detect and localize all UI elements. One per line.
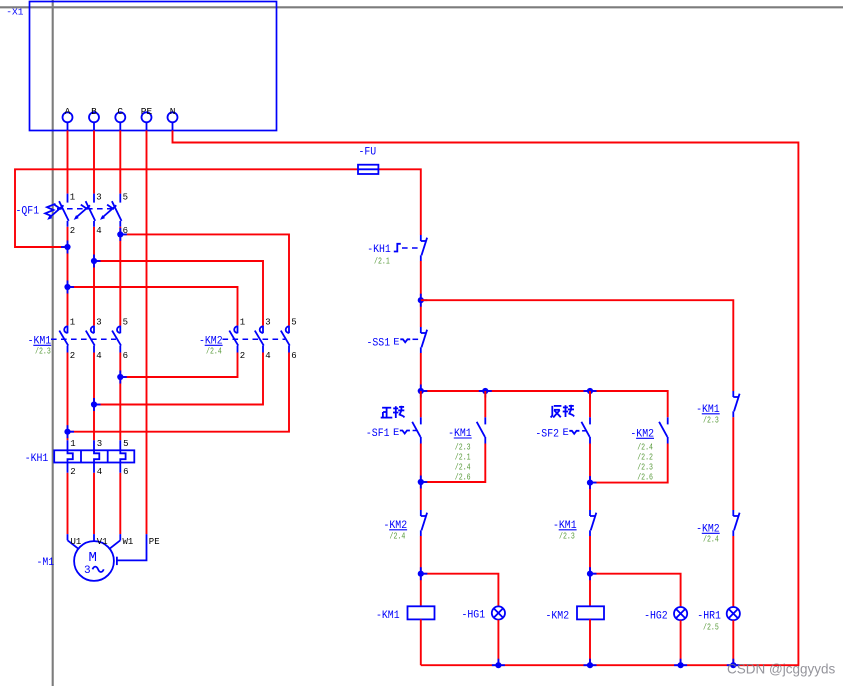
svg-text:5: 5	[291, 318, 296, 328]
svg-text:/2.4: /2.4	[206, 347, 222, 357]
svg-text:M: M	[89, 550, 97, 566]
node SF2/KM2aux join	[587, 476, 597, 489]
node control branch HR1	[418, 294, 428, 307]
node phase A to KM2	[64, 281, 74, 294]
wire KM2 coil to bottom rail	[589, 619, 591, 665]
wire HG1 to bottom rail	[497, 620, 499, 665]
motor PE connection	[117, 534, 147, 565]
wire SF1 bottom to junction	[420, 444, 422, 511]
svg-text:3: 3	[265, 318, 270, 328]
svg-text:-HR1: -HR1	[697, 611, 721, 623]
svg-text:/2.2: /2.2	[637, 452, 653, 462]
svg-text:3: 3	[96, 318, 101, 328]
contact KM2 NC branch1	[384, 510, 428, 542]
wire KH1 out to motor U1	[67, 473, 69, 534]
contactor KM1 pole 3	[112, 318, 128, 361]
wire PE from X1 to motor	[146, 131, 148, 535]
svg-text:A: A	[65, 106, 71, 117]
wire SF2 top feed	[589, 391, 591, 417]
motor M1	[37, 534, 160, 581]
wire KM2 aux bottom to junction	[590, 444, 668, 483]
wire KM2 pole1 out to phase C	[120, 353, 237, 378]
svg-text:V1: V1	[97, 537, 108, 547]
svg-text:/2.3: /2.3	[559, 532, 575, 542]
wire N from X1 right and down to bottom rail	[173, 131, 799, 666]
contactor KM1 pole 2	[86, 318, 102, 361]
svg-text:B: B	[91, 106, 97, 117]
svg-text:N: N	[170, 106, 176, 117]
svg-text:/2.1: /2.1	[374, 257, 390, 267]
wire branch3 to HR1	[732, 536, 734, 607]
node coil1/HG1	[418, 567, 428, 580]
svg-text:-KH1: -KH1	[25, 453, 49, 465]
svg-text:-HG1: -HG1	[462, 610, 486, 622]
node rail HG1	[492, 659, 505, 669]
contactor KM2 pole 1	[229, 318, 245, 361]
svg-text:/2.4: /2.4	[390, 532, 406, 542]
svg-text:CSDN @jcggyyds: CSDN @jcggyyds	[727, 662, 835, 677]
svg-text:5: 5	[123, 192, 128, 202]
wire KM1 out C down to KH1	[119, 353, 121, 441]
label reverse 反转	[551, 405, 575, 418]
wire SF1 top pin feed	[420, 391, 422, 417]
contactor KM2 pole 3	[281, 318, 297, 361]
svg-text:2: 2	[240, 351, 245, 361]
switch SS1 NC	[367, 327, 428, 353]
svg-text:6: 6	[123, 467, 128, 477]
svg-text:/2.4: /2.4	[637, 442, 653, 452]
node phase B KM2 join	[91, 398, 101, 411]
svg-text:5: 5	[123, 439, 128, 449]
pushbutton SF2 NO	[535, 417, 590, 443]
svg-text:1: 1	[70, 318, 75, 328]
svg-text:1: 1	[240, 318, 245, 328]
wire HR1 to bottom rail	[732, 620, 734, 665]
node rail at SF2	[584, 388, 597, 398]
svg-text:-X1: -X1	[6, 6, 23, 17]
coil KM1	[376, 606, 435, 622]
svg-text:1: 1	[70, 439, 75, 449]
lamp HG2	[644, 607, 687, 623]
svg-text:4: 4	[97, 467, 102, 477]
wire branch to HG1	[421, 574, 499, 607]
wire SS1 to rail	[420, 353, 422, 391]
thermal overload KH1	[25, 450, 135, 465]
contact KM2 NC branch3	[696, 510, 740, 545]
wire KM1 out A down to KH1	[67, 353, 69, 441]
svg-text:1: 1	[70, 192, 75, 202]
svg-text:3: 3	[84, 565, 91, 577]
wire phase A from X1 to QF1	[67, 131, 69, 194]
wire branch to HR1 column	[421, 300, 734, 391]
wire KM1 coil to bottom rail	[420, 619, 422, 665]
breaker QF1 pole 1	[47, 192, 75, 236]
node rail HG2	[674, 659, 687, 669]
frame gray lines	[0, 6, 843, 8]
svg-text:U1: U1	[71, 537, 82, 547]
wire SF2 bottom to junction	[589, 444, 591, 511]
wire control feed from phase A to fuse to KH1	[15, 169, 358, 247]
svg-text:-FU: -FU	[359, 147, 377, 159]
svg-text:2: 2	[70, 226, 75, 236]
contact KM1 aux NO	[448, 417, 485, 482]
fuse FU	[358, 147, 378, 175]
wire QF1 out C down to KM1 pole3	[119, 227, 121, 326]
wire phase A to KM2 pole1	[68, 287, 238, 326]
node rail at SF1	[418, 385, 428, 398]
svg-text:W1: W1	[123, 537, 134, 547]
svg-text:/2.4: /2.4	[703, 535, 719, 545]
svg-text:/2.3: /2.3	[703, 416, 719, 426]
label underlines	[33, 345, 719, 533]
node phase C to KM2	[117, 228, 127, 241]
contactor KM1 labels	[28, 336, 116, 357]
svg-text:/2.3: /2.3	[35, 347, 51, 357]
wire branch to HG2	[590, 574, 681, 607]
svg-text:/2.4: /2.4	[455, 463, 471, 473]
label forward 正转	[381, 406, 405, 418]
svg-text:E: E	[393, 427, 399, 439]
lamp HR1	[697, 607, 740, 633]
contactor KM2 labels	[199, 336, 285, 357]
svg-text:-KH1: -KH1	[367, 244, 391, 256]
lamp HG1	[462, 606, 506, 621]
svg-text:5: 5	[123, 318, 128, 328]
svg-text:PE: PE	[149, 537, 160, 547]
svg-text:4: 4	[96, 226, 101, 236]
svg-text:PE: PE	[141, 106, 153, 117]
contact KM2 aux NO	[630, 417, 667, 482]
breaker QF1	[16, 204, 114, 218]
svg-text:/2.6: /2.6	[637, 473, 653, 483]
contact KH1 control NC	[367, 235, 427, 267]
node coil2/HG2	[587, 567, 597, 580]
node phase A control tap	[61, 241, 71, 254]
node rail HR1	[727, 659, 740, 669]
svg-text:4: 4	[265, 351, 270, 361]
wire KH1 out to motor W1	[119, 473, 121, 534]
node phase B to KM2	[91, 255, 101, 268]
svg-text:/2.3: /2.3	[637, 463, 653, 473]
svg-text:-KM2: -KM2	[546, 611, 570, 623]
thermal element KH1 pole 2	[94, 439, 102, 477]
wire KM2NC to KM1 coil	[420, 536, 422, 606]
wire KM1 out B down to KH1	[93, 353, 95, 441]
wire phase B from X1 to QF1	[93, 131, 95, 194]
svg-text:/2.3: /2.3	[455, 442, 471, 452]
breaker QF1 pole 3	[100, 192, 128, 236]
svg-text:/2.1: /2.1	[455, 452, 471, 462]
contact KM1 NC branch2	[553, 510, 596, 542]
wire KM1 aux top feed	[484, 391, 486, 417]
svg-text:-SF2: -SF2	[535, 429, 559, 441]
svg-text:E: E	[563, 427, 569, 439]
node rail at KM1 aux	[479, 388, 492, 398]
terminal block X1	[6, 2, 276, 131]
svg-text:-QF1: -QF1	[16, 206, 40, 218]
wire KM2 pole2 out to phase B	[94, 353, 263, 405]
wire phase C to KM2 pole3	[120, 234, 289, 325]
wire QF1 out A down to KM1 pole1	[67, 227, 69, 326]
svg-text:-SS1: -SS1	[367, 338, 391, 350]
wire phase B to KM2 pole2	[94, 261, 263, 326]
svg-text:3: 3	[96, 192, 101, 202]
svg-text:-KM1: -KM1	[376, 610, 400, 622]
wire rail y391	[421, 391, 668, 417]
wire KM1NC to KM2 coil	[589, 536, 591, 606]
wire phase C from X1 to QF1	[119, 131, 121, 194]
svg-text:6: 6	[291, 351, 296, 361]
wire branch3 middle	[732, 417, 734, 510]
node phase A KM2 join	[64, 425, 74, 438]
svg-text:3: 3	[97, 439, 102, 449]
svg-text:4: 4	[96, 351, 101, 361]
svg-text:2: 2	[70, 351, 75, 361]
svg-text:C: C	[117, 106, 123, 117]
thermal element KH1 pole 3	[120, 439, 128, 477]
wire KH1 out to motor V1	[93, 473, 95, 534]
breaker QF1 pole 2	[74, 192, 102, 236]
node phase C KM2 join	[117, 371, 127, 384]
svg-text:/2.5: /2.5	[703, 623, 719, 633]
contact KM1 NC branch3	[696, 391, 740, 426]
contactor KM2 pole 2	[255, 318, 271, 361]
pushbutton SF1 NO	[366, 417, 421, 443]
svg-text:2: 2	[70, 467, 75, 477]
svg-text:-SF1: -SF1	[366, 428, 390, 440]
thermal element KH1 pole 1	[68, 439, 76, 477]
svg-text:6: 6	[123, 351, 128, 361]
node rail KM2 coil	[584, 659, 597, 669]
contactor KM1 pole 1	[59, 318, 75, 361]
svg-text:E: E	[393, 336, 399, 348]
wire KM1 aux bottom to junction	[421, 444, 486, 483]
svg-text:-M1: -M1	[37, 557, 55, 569]
wire KH1 ctrl to SS1	[420, 261, 422, 327]
wire HG2 to bottom rail	[680, 620, 682, 665]
coil KM2	[546, 606, 605, 622]
wire KM2 pole3 out to phase A	[68, 353, 290, 432]
svg-text:-HG2: -HG2	[644, 611, 668, 623]
node SF1/KM1aux join	[418, 476, 428, 489]
wire QF1 out B down to KM1 pole2	[93, 227, 95, 326]
